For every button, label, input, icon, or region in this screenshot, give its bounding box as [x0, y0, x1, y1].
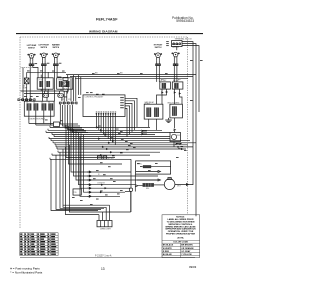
svg-text:MOT: MOT — [177, 186, 181, 188]
wire MDL to motor — [154, 184, 165, 186]
wire S2 drops — [43, 61, 46, 102]
svg-text:BK BLACK: BK BLACK — [163, 244, 174, 247]
wire jog D — [45, 91, 48, 94]
svg-text:BR BROWN: BR BROWN — [181, 245, 193, 247]
wire bus row 9 — [55, 144, 188, 146]
wire bus row 2 — [48, 129, 162, 131]
wire bus row 14 — [50, 158, 131, 160]
S5 labels — [172, 43, 180, 48]
bus inline connectors — [96, 127, 114, 156]
wire mid row 2 — [69, 126, 123, 164]
wire collector E — [21, 90, 64, 92]
svg-text:WIRING DIAGRAM: WIRING DIAGRAM — [89, 29, 118, 33]
svg-text:P3: P3 — [41, 102, 43, 104]
wire S3 drops — [55, 61, 58, 102]
wire RF out — [157, 89, 167, 104]
wire L2 — [182, 46, 199, 112]
svg-text:SWITCH: SWITCH — [172, 46, 179, 48]
wire TB to switch S5 — [176, 47, 178, 51]
wire G — [26, 72, 28, 78]
mid row labels — [97, 159, 113, 185]
EOC right pin labels — [96, 97, 124, 112]
wire bus row 8 — [53, 142, 196, 144]
S4 labels — [154, 45, 163, 49]
element labels left — [39, 80, 63, 82]
wire bus row 5 — [54, 136, 170, 138]
svg-text:P1: P1 — [27, 102, 29, 104]
wire jog B — [33, 68, 38, 78]
svg-text:LIGHT: LIGHT — [23, 87, 28, 89]
wire mid row 1 — [66, 125, 115, 158]
wire extra vertical x80.8 — [80, 77, 82, 95]
MDL arrow — [136, 185, 143, 187]
wire bus row 6 — [49, 138, 170, 140]
junction box J1 — [54, 122, 60, 127]
wire top bus 3 — [75, 78, 188, 80]
wire element outs — [41, 89, 67, 93]
wire R2 to conv box — [173, 131, 175, 133]
wire bundle left-down 4 — [63, 204, 110, 206]
wire top bus 2 — [70, 76, 193, 78]
limiter stack — [63, 78, 68, 92]
surface element RF — [160, 82, 171, 89]
indicator light PL1 — [24, 78, 29, 84]
wire top bus 1 — [66, 74, 196, 76]
block micro labels — [27, 102, 51, 104]
bus left hooks — [46, 126, 58, 160]
switch S2 (infinite switch) — [40, 53, 48, 61]
row connectors mid-low — [100, 143, 183, 193]
svg-text:SWITCH: SWITCH — [155, 47, 162, 49]
wire S5 drops — [174, 60, 177, 82]
wire bus row 7 — [51, 140, 190, 142]
switch S4 (infinite switch) — [154, 53, 162, 61]
wire bundle left-down 2 — [60, 149, 106, 208]
publication number label — [172, 16, 194, 23]
svg-text:5995434523: 5995434523 — [176, 19, 194, 23]
wire limiter feeds — [45, 91, 62, 101]
svg-text:COLOR CODE: COLOR CODE — [173, 242, 188, 244]
svg-text:P13: P13 — [68, 99, 71, 101]
header rule — [16, 33, 203, 35]
svg-text:P12: P12 — [61, 99, 64, 101]
S2 labels — [39, 45, 50, 49]
footer rule — [20, 257, 195, 259]
svg-text:RF UNIT: RF UNIT — [161, 80, 167, 82]
EOC bottom pins — [96, 113, 116, 116]
row components top — [97, 156, 106, 159]
wire H — [27, 71, 66, 73]
wire lamp riser top — [130, 159, 132, 188]
svg-text:MDL: MDL — [146, 188, 149, 190]
svg-text:F-23157-1 rev A: F-23157-1 rev A — [95, 254, 112, 257]
wire bus row 12 — [58, 151, 160, 153]
switch S1 (infinite switch) — [28, 54, 36, 62]
switch S3 (infinite switch) — [52, 53, 60, 61]
switch S5 (infinite switch) — [172, 52, 180, 60]
color code table — [162, 240, 200, 257]
wire EOC right exits — [125, 98, 137, 136]
relay box R2 — [170, 104, 183, 118]
wire element feeds — [41, 72, 67, 78]
left arrows to conv area — [141, 130, 147, 135]
oven cavity box — [136, 161, 171, 174]
limiter LF — [43, 94, 49, 97]
relay box R1 caption — [145, 101, 154, 106]
svg-text:* = Non-Illustrated Parts: * = Non-Illustrated Parts — [10, 271, 42, 275]
legend notice text — [165, 217, 196, 240]
limiter dots — [64, 83, 68, 89]
wire mid row 3 — [71, 128, 131, 172]
oven box inner element — [143, 165, 151, 168]
wire EOC pin drops — [96, 117, 115, 145]
oven control box EOC — [83, 95, 125, 117]
terminal block TB — [172, 41, 183, 47]
svg-text:BU BLUE: BU BLUE — [163, 254, 173, 256]
svg-text:CONVECTION FAN: CONVECTION FAN — [28, 117, 45, 120]
element labels right — [161, 80, 180, 82]
wire mid row 6 — [79, 132, 136, 185]
svg-text:OR ORANGE: OR ORANGE — [181, 247, 194, 250]
wire mid row 8 — [84, 135, 126, 192]
svg-text:09/03: 09/03 — [189, 265, 197, 269]
svg-text:CONTROL PNL ASSY: CONTROL PNL ASSY — [85, 96, 105, 99]
svg-text:P4: P4 — [48, 102, 50, 104]
svg-text:13: 13 — [101, 267, 105, 271]
wire N — [182, 44, 196, 217]
wire motor out — [175, 184, 193, 186]
wire bundle left-down 1 — [51, 155, 101, 210]
wire to motor row — [137, 179, 161, 181]
connector marks under right elements — [161, 91, 180, 94]
svg-text:SWITCH: SWITCH — [40, 47, 47, 49]
S3 labels — [52, 44, 60, 49]
wire conv motor out — [173, 142, 175, 147]
wire RR out — [175, 89, 183, 104]
svg-text:FEFL74ASF: FEFL74ASF — [96, 18, 118, 22]
svg-text:OVEN LIGHT: OVEN LIGHT — [100, 228, 112, 230]
surface element LF/LR — [37, 78, 53, 89]
row component small box — [73, 189, 81, 195]
wire jog C — [57, 76, 61, 79]
connector P4 — [97, 221, 112, 227]
legend box — [162, 215, 200, 258]
wire bundle left-down 3 — [66, 145, 131, 215]
svg-text:HI-LIMIT: HI-LIMIT — [108, 159, 114, 161]
wire bus row 10 — [56, 146, 193, 148]
wire pin drops to P4 — [99, 205, 110, 220]
parts table — [20, 233, 58, 256]
wire mid row 9 — [80, 136, 120, 196]
svg-text:RR UNIT: RR UNIT — [173, 80, 179, 82]
limiter LR — [58, 94, 64, 97]
wire gauge labels scatter — [24, 41, 203, 205]
connector plugs row — [18, 99, 77, 104]
wire S4 drops — [157, 61, 160, 82]
S1 labels — [27, 44, 37, 49]
wire S1 drops — [30, 61, 33, 101]
svg-text:LR LF: LR LF — [39, 80, 43, 82]
wire bus row 4 — [52, 134, 155, 136]
wire to J1 b — [36, 124, 54, 126]
convection motor M2 — [170, 133, 181, 142]
wire bus row 11 — [57, 148, 186, 150]
color code entries — [163, 244, 195, 256]
svg-text:-NOTE-: -NOTE- — [177, 237, 184, 239]
R2 inline connector — [174, 129, 177, 131]
MDL element — [143, 183, 154, 186]
wire bus row 3 — [46, 131, 170, 133]
wire to J1 a — [29, 123, 54, 125]
wire lamp riser bottom — [130, 191, 132, 212]
wire bus row 1 — [50, 126, 150, 128]
wire stack drops — [64, 75, 76, 102]
wire R2 out — [173, 118, 175, 128]
svg-text:SWITCH: SWITCH — [52, 47, 59, 49]
svg-text:TERMINAL BLOCK: TERMINAL BLOCK — [175, 38, 193, 41]
console dashed border — [20, 37, 188, 229]
wire mid row 7 — [81, 133, 131, 188]
switch bottom connectors — [29, 64, 178, 66]
wire block outs — [29, 110, 51, 125]
svg-text:GY GRAY: GY GRAY — [181, 250, 191, 253]
wire left border drop — [22, 68, 24, 102]
oven box inner wire — [151, 166, 171, 168]
svg-text:R RED: R RED — [163, 251, 170, 253]
wire jog A — [21, 67, 33, 69]
wire indicator out — [26, 84, 28, 102]
oven lamp — [129, 188, 132, 191]
svg-text:SWITCH: SWITCH — [28, 48, 35, 50]
wire R1 outs — [149, 119, 157, 130]
wire lamp left — [125, 190, 131, 192]
chassis ground — [165, 118, 172, 123]
wire L1 — [182, 42, 193, 185]
svg-text:P2: P2 — [33, 102, 35, 104]
wire oven internal — [136, 171, 161, 173]
relay box R1 — [144, 104, 163, 119]
wire conn row drops — [60, 104, 88, 133]
wire collector F — [24, 93, 60, 95]
svg-text:Y YELLOW: Y YELLOW — [181, 254, 191, 256]
svg-text:PROPER OPERATION AFTER: PROPER OPERATION AFTER — [166, 233, 195, 236]
wire extra vertical x78.5 — [78, 75, 80, 95]
door lock motor M1 — [164, 178, 175, 190]
svg-text:W WHITE: W WHITE — [163, 248, 173, 250]
connector row labels — [61, 99, 71, 101]
wire oven box drop — [134, 174, 136, 191]
bake element block — [24, 101, 54, 116]
wire bus row 13 — [52, 154, 150, 156]
indicator label — [23, 85, 28, 89]
wire mid row 5 — [76, 131, 158, 180]
surface element WARM — [57, 78, 73, 89]
surface element RR — [172, 82, 183, 89]
wire mid row 4 — [74, 129, 159, 176]
mid row arrows — [87, 171, 91, 197]
parts table text — [20, 233, 56, 254]
